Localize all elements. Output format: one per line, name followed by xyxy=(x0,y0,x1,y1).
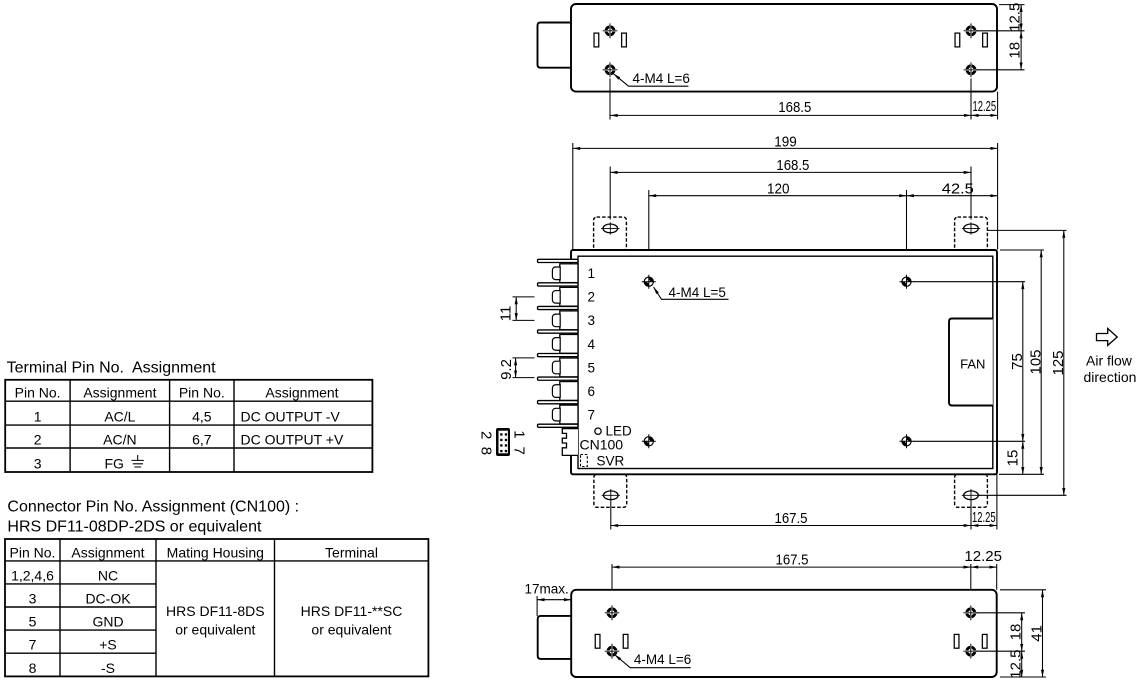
dimension 12.5 (top view right) xyxy=(977,5,1025,70)
svg-text:17max.: 17max. xyxy=(525,581,569,596)
table 2 rows xyxy=(11,567,131,676)
svg-text:4: 4 xyxy=(588,337,596,352)
svg-text:120: 120 xyxy=(767,181,790,198)
dimension 120 xyxy=(649,195,907,197)
mounting screw hole xyxy=(963,605,978,620)
SVR access (dashed) xyxy=(581,455,588,467)
svg-text:41: 41 xyxy=(1029,625,1046,642)
extension lines right xyxy=(913,230,1067,474)
dimension 18 (top view right) xyxy=(1020,31,1022,70)
ear oval hole xyxy=(962,489,980,501)
leader 4-M4 L=6 (bottom view) xyxy=(615,655,691,668)
dimension 42.5 xyxy=(907,195,998,197)
top view enclosure body xyxy=(571,4,997,92)
svg-text:direction: direction xyxy=(1084,369,1137,385)
svg-text:4-M4 L=6: 4-M4 L=6 xyxy=(634,652,691,667)
svg-text:105: 105 xyxy=(1028,349,1045,374)
terminal numbers xyxy=(588,266,596,422)
mounting ear (bottom right, dashed) xyxy=(955,474,988,507)
svg-text:CN100: CN100 xyxy=(580,436,624,452)
svg-text:18: 18 xyxy=(1007,42,1024,59)
svg-text:5: 5 xyxy=(588,360,596,375)
vent slot xyxy=(595,634,600,648)
mounting screw hole xyxy=(605,605,620,620)
dimension 18 (bottom view) xyxy=(1021,613,1023,651)
svg-text:1,2,4,6: 1,2,4,6 xyxy=(11,567,54,583)
dimension 168.5 (top view) xyxy=(610,79,971,120)
svg-text:FG: FG xyxy=(105,456,124,472)
vent slot xyxy=(955,33,960,47)
svg-text:167.5: 167.5 xyxy=(776,552,809,569)
LED indicator xyxy=(595,428,601,434)
vent slot xyxy=(622,33,627,47)
mounting screw hole xyxy=(964,23,979,38)
table 2 grid xyxy=(5,539,428,676)
svg-text:9.2: 9.2 xyxy=(498,359,515,380)
svg-text:2: 2 xyxy=(588,290,596,305)
svg-text:1: 1 xyxy=(34,409,42,425)
svg-text:HRS DF11-08DP-2DS or equivalen: HRS DF11-08DP-2DS or equivalent xyxy=(7,519,262,536)
table 2 merged cells xyxy=(166,603,402,638)
svg-text:12.25: 12.25 xyxy=(964,548,1002,565)
svg-text:7: 7 xyxy=(29,637,37,653)
mounting screw hole xyxy=(603,62,618,77)
dimension 167.5 (middle view) xyxy=(611,502,971,530)
svg-text:15: 15 xyxy=(1005,450,1022,467)
vent slot xyxy=(982,634,987,648)
svg-text:199: 199 xyxy=(774,133,797,150)
svg-text:6,7: 6,7 xyxy=(192,432,212,448)
svg-text:168.5: 168.5 xyxy=(776,157,809,174)
svg-text:1: 1 xyxy=(588,266,596,281)
svg-text:SVR: SVR xyxy=(597,453,625,468)
svg-text:DC OUTPUT -V: DC OUTPUT -V xyxy=(241,409,341,425)
svg-text:3: 3 xyxy=(29,591,37,607)
svg-text:12.5: 12.5 xyxy=(1007,3,1024,32)
dimension 75 xyxy=(1022,282,1024,442)
svg-text:Assignment: Assignment xyxy=(265,385,338,401)
svg-text:Connector Pin No. Assignment (: Connector Pin No. Assignment (CN100) : xyxy=(7,498,299,515)
svg-text:12.25: 12.25 xyxy=(973,98,997,115)
ear oval hole left xyxy=(601,222,619,234)
main view body inner line xyxy=(578,256,993,468)
svg-text:167.5: 167.5 xyxy=(775,510,808,527)
table 1 header xyxy=(15,385,339,401)
bottom view enclosure body xyxy=(571,590,997,677)
dimension 9.2 (terminal pitch) xyxy=(513,358,535,378)
svg-text:42.5: 42.5 xyxy=(942,181,974,198)
dimension 15 xyxy=(1022,441,1024,474)
mounting screw hole xyxy=(605,644,620,659)
svg-text:DC OUTPUT +V: DC OUTPUT +V xyxy=(241,432,344,448)
AC inlet bump (top view) xyxy=(538,23,572,68)
reference line to 125 dim xyxy=(978,494,1067,496)
svg-text:Assignment: Assignment xyxy=(83,385,156,401)
CN100 connector icon xyxy=(496,428,510,456)
svg-text:4-M4 L=5: 4-M4 L=5 xyxy=(669,285,726,300)
svg-text:3: 3 xyxy=(588,313,596,328)
svg-text:or equivalent: or equivalent xyxy=(311,622,391,638)
svg-text:NC: NC xyxy=(98,567,118,583)
terminal cells xyxy=(560,264,578,424)
dimension 199 xyxy=(573,147,998,149)
dimension 41 (bottom view) xyxy=(1042,590,1044,677)
svg-text:6: 6 xyxy=(588,384,596,399)
dimension 12.25 (top view) xyxy=(997,92,999,120)
mounting screw hole xyxy=(963,644,978,659)
svg-text:Pin No.: Pin No. xyxy=(179,385,225,401)
svg-text:HRS DF11-**SC: HRS DF11-**SC xyxy=(301,603,403,619)
mounting ear (top left, dashed) xyxy=(594,217,627,250)
table 1 rows xyxy=(34,409,344,472)
svg-text:+S: +S xyxy=(99,637,117,653)
svg-text:8: 8 xyxy=(478,447,495,455)
svg-text:7: 7 xyxy=(588,407,596,422)
dimension 12.25 (bottom view) xyxy=(996,564,998,590)
dimension 17max xyxy=(536,596,538,616)
svg-text:AC/L: AC/L xyxy=(104,409,135,425)
svg-text:GND: GND xyxy=(92,614,123,630)
svg-text:Pin No.: Pin No. xyxy=(15,385,61,401)
air flow arrow xyxy=(1097,329,1118,346)
svg-text:AC/N: AC/N xyxy=(103,432,136,448)
CN100 housing castellation xyxy=(562,429,578,456)
dimension 125 xyxy=(1063,230,1065,495)
svg-text:DC-OK: DC-OK xyxy=(85,591,131,607)
vent slot xyxy=(983,33,988,47)
svg-text:Terminal: Terminal xyxy=(325,544,378,560)
extension lines above main view xyxy=(573,143,998,276)
svg-text:Air flow: Air flow xyxy=(1086,353,1133,369)
svg-text:168.5: 168.5 xyxy=(778,99,811,116)
AC inlet bump (bottom view) xyxy=(538,616,572,659)
svg-text:Pin No.: Pin No. xyxy=(10,544,56,560)
mounting screw hole xyxy=(603,23,618,38)
svg-text:-S: -S xyxy=(101,660,115,676)
main view body outer xyxy=(571,250,997,474)
svg-text:Mating Housing: Mating Housing xyxy=(167,544,264,560)
svg-text:HRS DF11-8DS: HRS DF11-8DS xyxy=(166,603,265,619)
dimension 168.5 xyxy=(610,171,971,173)
svg-text:11: 11 xyxy=(498,306,515,322)
mounting ear (bottom left, dashed) xyxy=(594,474,627,507)
svg-text:2: 2 xyxy=(478,431,495,439)
svg-text:125: 125 xyxy=(1050,350,1067,375)
dimension 11 (terminal pitch) xyxy=(513,297,535,321)
svg-text:18: 18 xyxy=(1007,624,1024,641)
svg-text:8: 8 xyxy=(29,660,37,676)
svg-text:12.5: 12.5 xyxy=(1007,649,1024,678)
mounting ear (top right, dashed) xyxy=(955,217,988,250)
svg-text:75: 75 xyxy=(1009,353,1026,370)
ear oval hole xyxy=(602,489,620,501)
terminal screws xyxy=(552,267,560,421)
svg-text:2: 2 xyxy=(34,432,42,448)
ear oval hole right xyxy=(962,222,980,234)
table 1 grid xyxy=(5,380,372,472)
leader 4-M4 L=6 (top view) xyxy=(614,74,689,86)
svg-text:7: 7 xyxy=(511,447,528,455)
svg-text:or equivalent: or equivalent xyxy=(175,622,255,638)
svg-text:4-M4 L=6: 4-M4 L=6 xyxy=(633,71,690,86)
chassis screw top right xyxy=(900,275,914,289)
svg-text:FAN: FAN xyxy=(960,357,985,372)
table 2 header xyxy=(10,544,378,560)
svg-text:4,5: 4,5 xyxy=(192,409,212,425)
right dims bottom view extension lines xyxy=(976,590,1046,677)
svg-text:Assignment: Assignment xyxy=(71,544,144,560)
svg-text:5: 5 xyxy=(29,614,37,630)
terminal fins xyxy=(538,259,579,427)
FAN opening xyxy=(949,319,993,406)
svg-text:1: 1 xyxy=(511,430,528,438)
svg-text:3: 3 xyxy=(34,456,42,472)
chassis screw bottom left xyxy=(642,434,656,448)
ground symbol xyxy=(132,455,144,467)
leader 4-M4 L=5 xyxy=(654,287,729,299)
vent slot xyxy=(623,634,628,648)
dimension 12.5 (bottom view) xyxy=(1021,651,1023,677)
dimension 12.25 (middle view) xyxy=(996,474,998,529)
dimension 167.5 (bottom view) xyxy=(612,564,971,606)
chassis screw bottom right xyxy=(900,434,914,448)
svg-text:Terminal Pin No. Assignment: Terminal Pin No. Assignment xyxy=(7,359,217,376)
dimension 105 xyxy=(1040,250,1042,474)
chassis screw 4-M4 L=5 top left xyxy=(642,275,656,289)
svg-text:12.25: 12.25 xyxy=(972,509,996,526)
vent slot xyxy=(954,634,959,648)
vent slot xyxy=(594,33,599,47)
mounting screw hole xyxy=(964,62,979,77)
